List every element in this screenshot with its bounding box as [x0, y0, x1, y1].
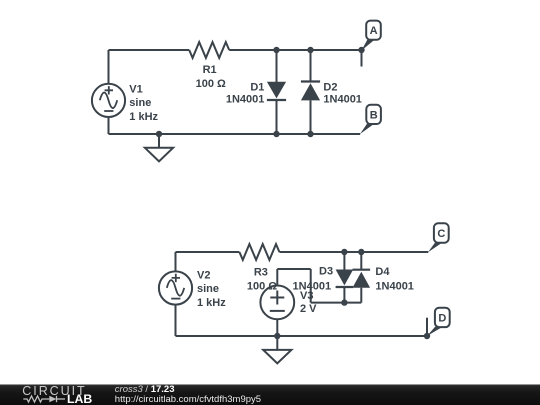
wire bottom circuit: V2 top stub [175, 252, 177, 272]
junction node D anchor [424, 333, 430, 339]
svg-text:sine: sine [129, 97, 151, 109]
V2 minus sign [171, 298, 180, 300]
V2 sine glyph [167, 280, 184, 296]
svg-text:1N4001: 1N4001 [375, 280, 414, 292]
wire: diode bottom rail [311, 302, 362, 304]
V2 plus sign [172, 274, 180, 282]
svg-text:1 kHz: 1 kHz [197, 297, 226, 309]
svg-text:D1: D1 [250, 82, 264, 94]
V1 sine glyph [100, 93, 117, 109]
ground (top circuit) triangle [145, 148, 173, 162]
svg-text:D2: D2 [323, 82, 337, 94]
diode D2 triangle [301, 83, 320, 100]
wire bottom circuit: V2 bottom stub [175, 305, 177, 336]
diode D4 triangle [353, 272, 371, 288]
wire: V3 jog vertical down [310, 269, 312, 303]
svg-text:100 Ω: 100 Ω [196, 78, 226, 90]
node A flag box [366, 21, 381, 40]
diode D3 triangle [336, 270, 354, 286]
voltage source V3 circle [260, 286, 294, 320]
svg-text:C: C [437, 228, 445, 240]
svg-text:V1: V1 [129, 83, 142, 95]
node A flag pointer [362, 40, 375, 51]
wire bottom circuit: top rail right of R3 to node C [279, 251, 428, 253]
footer logo resistor glyph [23, 396, 49, 402]
svg-text:R3: R3 [254, 267, 268, 279]
footer bar [0, 384, 540, 405]
diode D1 bottom lead [276, 100, 278, 134]
wire: stub above node D [426, 318, 428, 336]
node B flag pointer [360, 124, 374, 134]
wire: V3 bottom stub [276, 319, 278, 336]
svg-text:LAB: LAB [67, 392, 92, 405]
junction node at D3 top [341, 249, 347, 255]
wire top circuit: V1 bottom stub [108, 117, 110, 134]
voltage source V1 circle [92, 84, 125, 117]
svg-text:sine: sine [197, 283, 219, 295]
svg-text:B: B [370, 109, 378, 121]
svg-text:A: A [370, 25, 378, 37]
diode D1 triangle [267, 82, 286, 99]
junction node at D1 bottom [273, 131, 279, 137]
wire top circuit: bottom rail [109, 133, 361, 135]
wire bottom circuit: top rail left of R3 [176, 251, 240, 253]
V1 minus sign [104, 110, 113, 112]
svg-text:D4: D4 [375, 266, 390, 278]
junction node at ground bottom circuit [274, 333, 280, 339]
svg-text:1N4001: 1N4001 [226, 94, 265, 106]
diode D2 bottom lead [310, 100, 312, 134]
diode D2 top lead [310, 50, 312, 82]
ground (top circuit) stub [158, 134, 160, 148]
wire top circuit: top rail left of R1 [109, 49, 190, 51]
diode D4 cathode bar [353, 269, 371, 271]
node C flag box [434, 223, 449, 242]
svg-text:http://circuitlab.com/cfvtdfh3: http://circuitlab.com/cfvtdfh3m9py5 [115, 394, 261, 405]
V3 plus sign [270, 291, 284, 305]
resistor R1 [189, 42, 229, 58]
svg-text:D3: D3 [319, 266, 333, 278]
node D flag box [435, 308, 450, 327]
wire bottom circuit: bottom rail [176, 335, 428, 337]
svg-text:V2: V2 [197, 269, 210, 281]
diode D2 cathode bar [301, 80, 320, 82]
wire: stub below node A [361, 50, 363, 67]
V3 minus sign [270, 310, 285, 312]
diode D3 bottom lead [343, 287, 345, 303]
V1 plus sign [105, 86, 113, 94]
wire top circuit: V1 top stub [108, 50, 110, 84]
junction node at D3 bottom [341, 299, 347, 305]
junction node at D2 top [307, 47, 313, 53]
diode D3 top lead [343, 252, 345, 270]
node B flag box [366, 105, 381, 124]
junction node A anchor [358, 47, 364, 53]
svg-text:2 V: 2 V [300, 303, 317, 315]
ground (bottom circuit) stub [276, 336, 278, 350]
footer logo diode glyph [56, 396, 58, 402]
junction node at ground top circuit [156, 131, 162, 137]
diode D4 bottom lead [360, 288, 362, 303]
svg-text:D: D [438, 312, 446, 324]
svg-text:100 Ω: 100 Ω [247, 280, 277, 292]
svg-text:1 kHz: 1 kHz [129, 111, 158, 123]
diode D4 top lead [360, 252, 362, 270]
junction node at D4 top [358, 249, 364, 255]
wire: V3 jog horizontal [277, 268, 310, 270]
wire: V3 top lead up [276, 269, 278, 286]
diode D3 cathode bar [336, 286, 354, 288]
diode D1 top lead [276, 50, 278, 82]
junction node at D2 bottom [307, 131, 313, 137]
svg-text:R1: R1 [203, 64, 217, 76]
wire top circuit: top rail right of R1 to node A [229, 49, 361, 51]
resistor R3 [239, 244, 279, 260]
footer logo diode triangle [49, 396, 56, 402]
svg-text:1N4001: 1N4001 [323, 94, 362, 106]
diode D1 cathode bar [267, 99, 286, 101]
node D flag pointer [427, 327, 443, 336]
node C flag pointer [428, 243, 442, 253]
junction node at R1/D1 top [273, 47, 279, 53]
ground (bottom circuit) triangle [263, 350, 291, 364]
svg-text:V3: V3 [300, 290, 313, 302]
voltage source V2 circle [159, 271, 192, 304]
